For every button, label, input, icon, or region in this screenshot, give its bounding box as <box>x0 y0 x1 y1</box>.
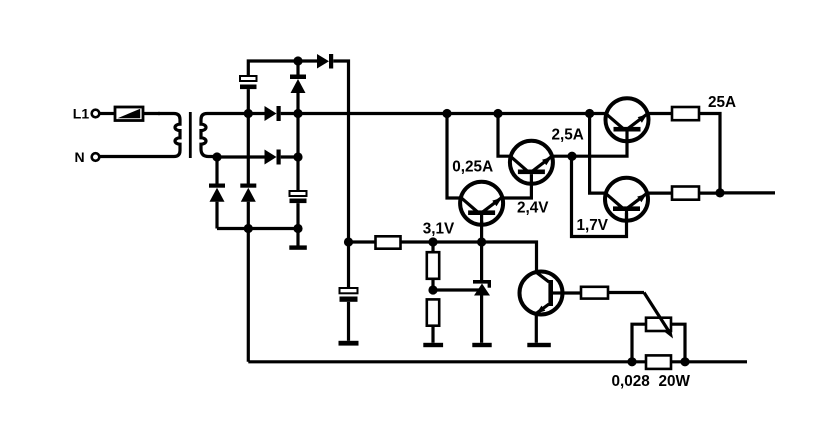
diode D3 <box>265 106 281 121</box>
wire driver node to Q3 base <box>572 141 627 156</box>
wire bottom return rail <box>248 360 646 363</box>
wire Q2 emitter to driver node <box>552 155 572 158</box>
transformer T1 secondary winding <box>201 114 248 157</box>
resistor R3 <box>427 299 439 342</box>
wire R5 to output node <box>699 192 720 195</box>
wire C1 bottom to rail <box>247 89 250 113</box>
diode D5 <box>290 61 306 93</box>
wire pot left leg <box>632 324 646 362</box>
resistor R7 shunt <box>646 355 671 369</box>
wire positive node vertical <box>296 114 299 192</box>
wire pot right leg <box>671 324 685 362</box>
svg-text:25A: 25A <box>708 94 736 111</box>
wire D4 cathode to positive node <box>281 155 298 158</box>
wire main positive rail <box>281 112 607 115</box>
svg-text:20W: 20W <box>659 373 691 390</box>
svg-text:2,5A: 2,5A <box>552 127 584 144</box>
transistor Q3 <box>606 98 649 141</box>
node L1 terminal <box>73 105 99 121</box>
transformer T1 primary winding <box>99 114 180 157</box>
resistor R5 <box>672 187 699 200</box>
svg-text:0,028: 0,028 <box>612 373 651 390</box>
wire D5 anode to rail <box>296 93 299 114</box>
resistor R1 <box>376 236 401 248</box>
wire Q5 emitter to ground <box>535 314 538 343</box>
potentiometer P1 wiper arrow <box>644 293 673 339</box>
transistor Q2 <box>510 141 553 184</box>
wire Q4 emitter to R5 <box>647 192 672 195</box>
transistor Q4 <box>605 178 648 221</box>
node junction dots <box>212 56 724 366</box>
transistor Q1 <box>460 182 503 225</box>
svg-text:2,4V: 2,4V <box>517 200 549 217</box>
wire diode D6 to down feed <box>333 61 348 242</box>
wire L1 to fuse <box>99 112 115 115</box>
transformer T1 core <box>189 112 192 158</box>
svg-text:N: N <box>75 149 85 165</box>
wire Q1 base to control rail <box>480 221 483 242</box>
wire top snubber rail <box>248 61 317 76</box>
wire C2 bottom to ground <box>296 203 299 245</box>
resistor R6 <box>581 287 608 299</box>
capacitor C2 <box>290 191 307 203</box>
wire negative down to bottom rail <box>247 229 250 362</box>
fuse F1 <box>115 107 143 121</box>
wire Q1 emitter to Q2 base <box>503 184 532 198</box>
svg-text:0,25A: 0,25A <box>452 159 493 176</box>
capacitor C3 <box>340 242 358 341</box>
svg-text:1,7V: 1,7V <box>577 217 609 234</box>
wire R4 to output corner <box>699 114 720 193</box>
wire divider to zener anode <box>433 288 479 291</box>
svg-text:3,1V: 3,1V <box>423 221 455 238</box>
wire rail to Q1 collector <box>447 114 461 199</box>
svg-text:L1: L1 <box>73 105 90 121</box>
wire rail secondary top to diode D3 <box>248 112 265 115</box>
wire R6 to pot wiper <box>608 291 644 294</box>
wire rail to Q2 collector <box>498 114 510 157</box>
transistor Q5 <box>520 272 563 315</box>
ground G3 <box>423 343 443 347</box>
ground G2 <box>339 341 359 346</box>
wire Q3 emitter to R4 <box>648 112 672 115</box>
wire bottom rail right <box>671 360 747 363</box>
resistor R2 <box>427 242 439 290</box>
zener ZD1 <box>473 242 491 343</box>
wire fuse to transformer primary <box>143 112 160 115</box>
node N terminal <box>75 149 100 165</box>
ground G4 <box>472 343 491 347</box>
wire Q5 base to R6 <box>561 291 581 294</box>
ground G1 <box>289 245 307 249</box>
diode D1 <box>209 157 225 229</box>
capacitor C1 <box>240 76 257 89</box>
wire control rail <box>349 240 376 243</box>
diode D6 <box>317 54 333 69</box>
ground G5 <box>527 343 551 347</box>
wire secondary bottom to diode D4 <box>217 155 265 158</box>
wire driver node down to Q4 base <box>572 156 627 236</box>
diode D4 <box>265 150 281 165</box>
wire R1 to Q5 collector feed <box>401 242 537 272</box>
wire output <box>720 191 775 194</box>
potentiometer P1 body <box>646 318 671 331</box>
resistor R4 <box>672 107 699 120</box>
diode D2 <box>240 114 256 229</box>
wire negative bridge rail <box>217 227 298 230</box>
wire rail down to Q4 collector <box>590 114 605 194</box>
